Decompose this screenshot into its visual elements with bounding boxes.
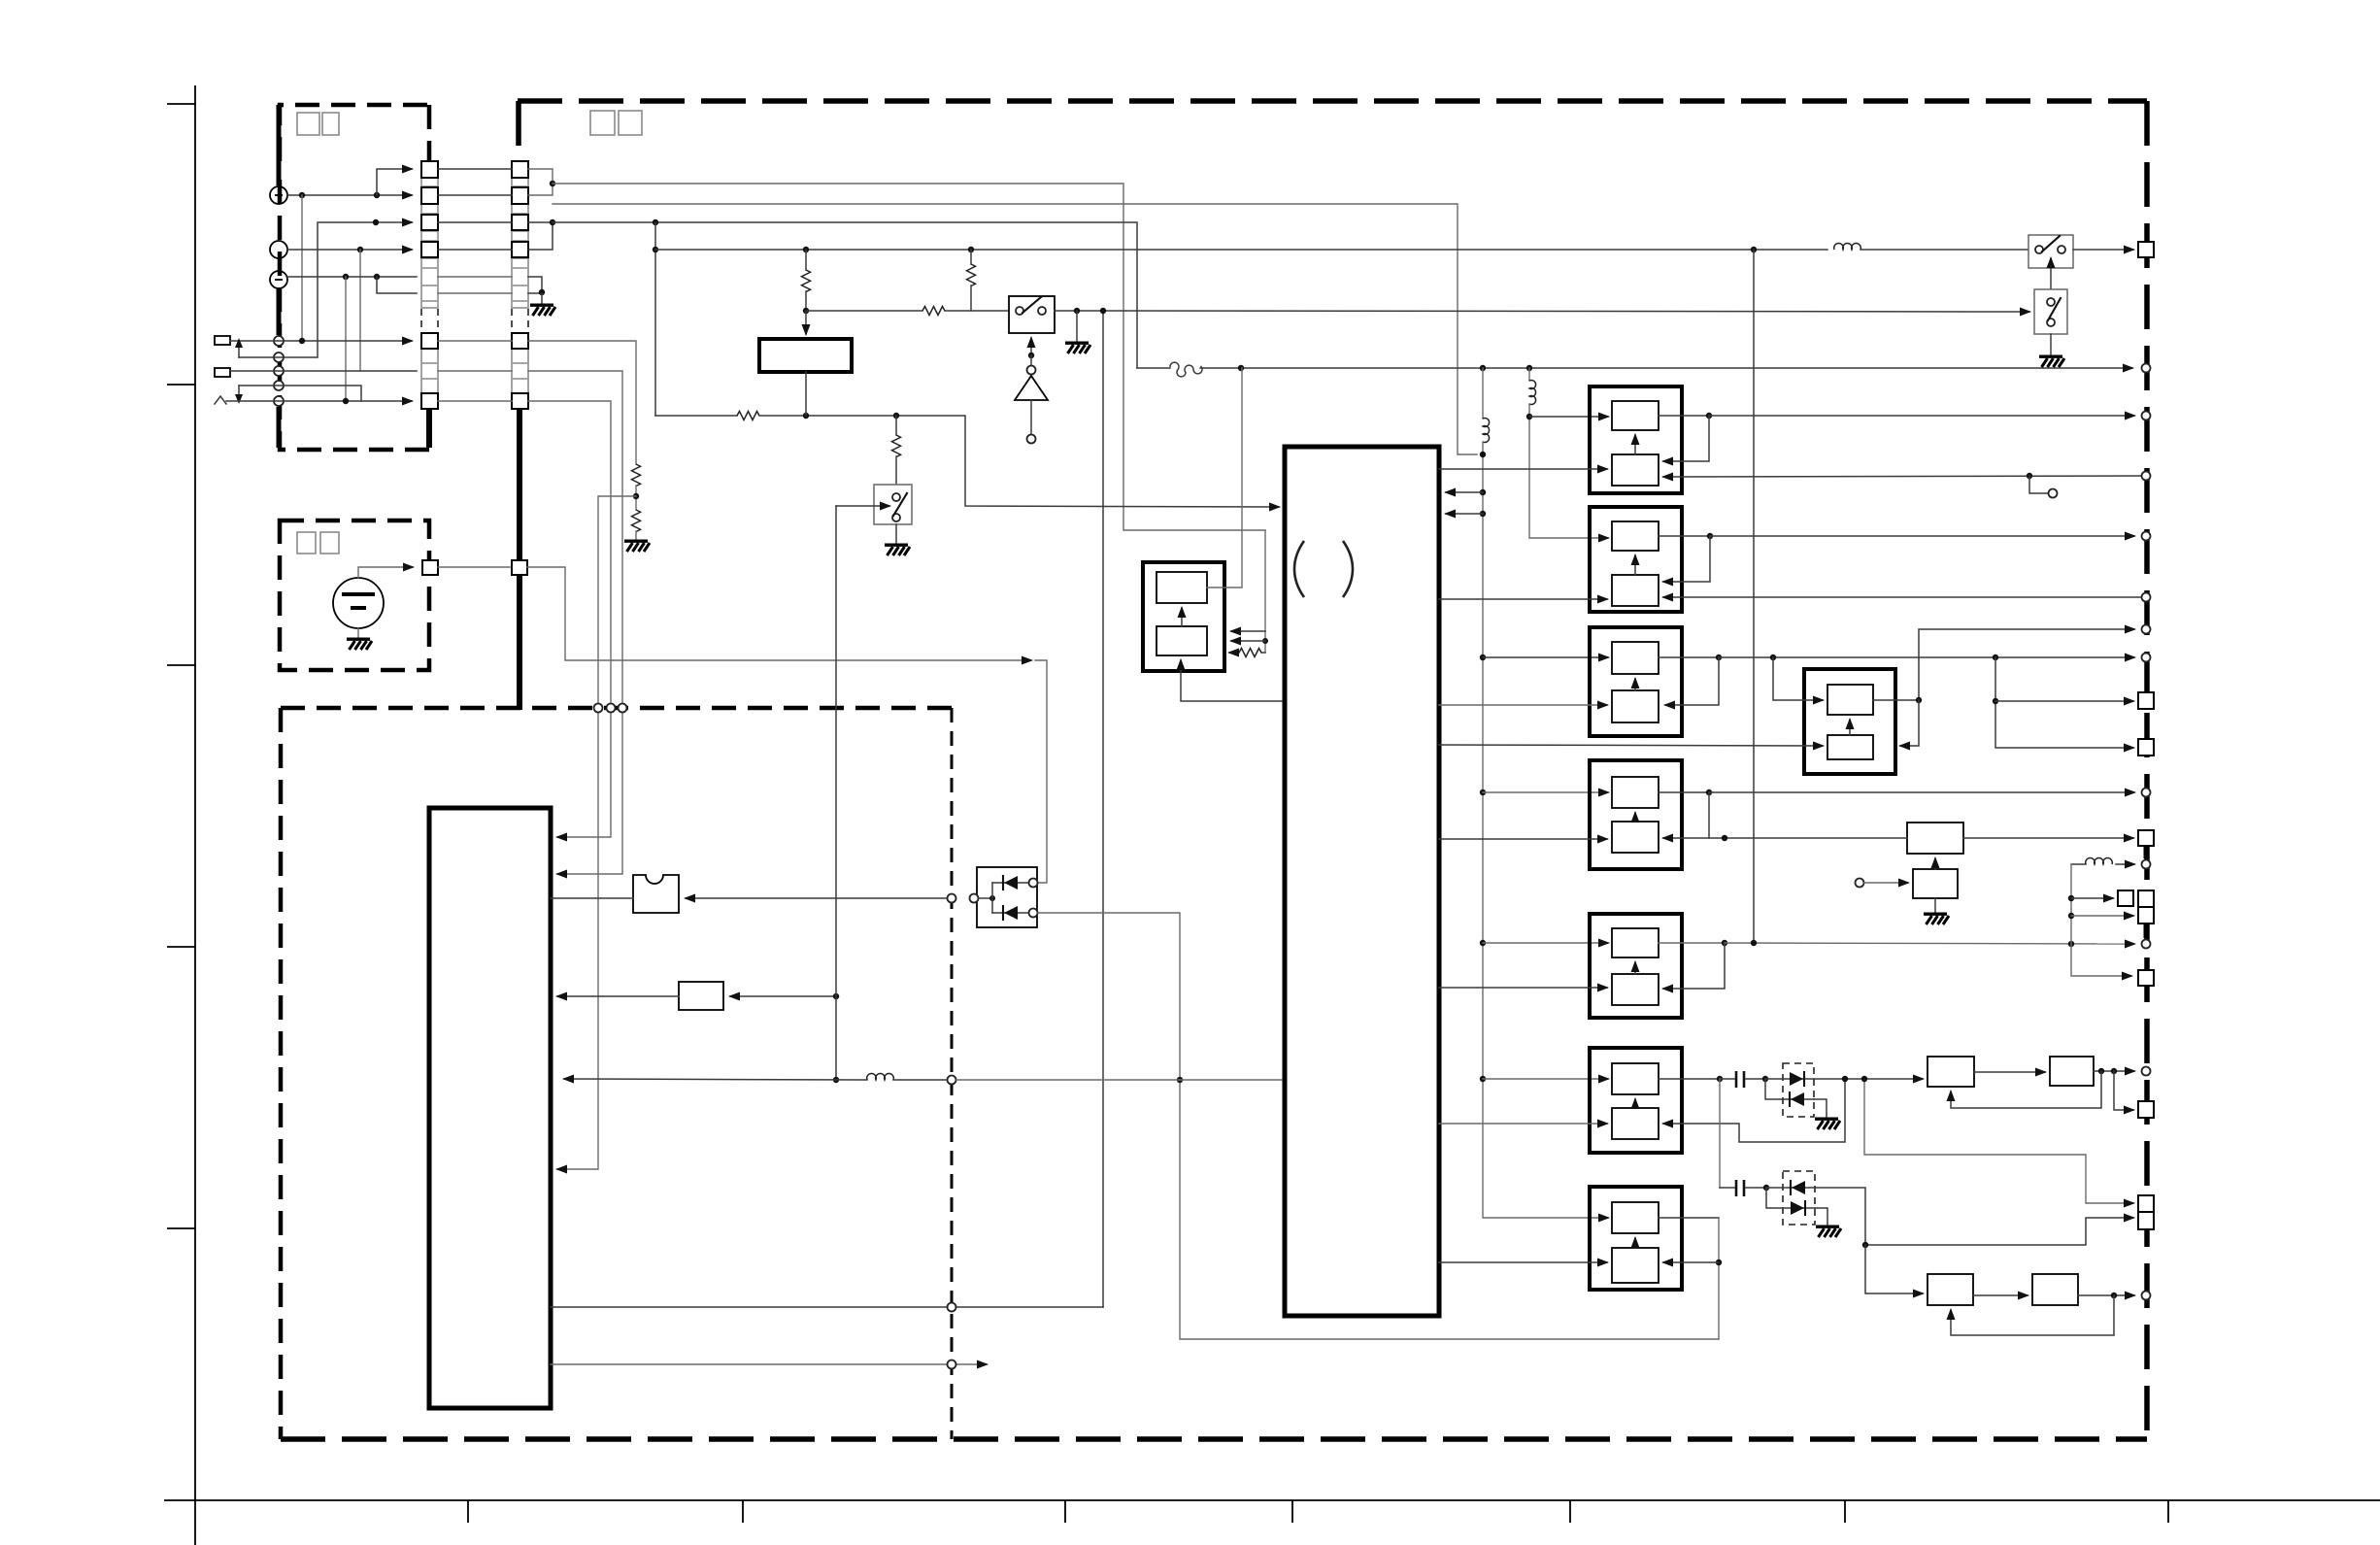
wire IC1 y1283 line (1865, 1218, 2133, 1245)
border circle y972 (2142, 940, 2151, 949)
wire R9 to tap (635, 486, 637, 510)
ground CN2 (530, 305, 555, 316)
wire R4 to bus320 (805, 291, 807, 311)
junction y1111 x1900 (1842, 1076, 1848, 1082)
A6 top rect (1612, 1063, 1659, 1094)
wire x1527 to box4 top (1483, 791, 1608, 793)
battery pack box P1 dashed border (280, 105, 429, 450)
lower-left block dashed right edge (951, 708, 954, 1439)
border circle y674 (2142, 654, 2151, 662)
border circle y615 (2142, 593, 2151, 602)
wire BT+ drop to row1 (301, 195, 303, 341)
junction x2133 y943 (2068, 913, 2074, 919)
driver box A1 (1590, 386, 1682, 493)
DB1 ground (1814, 1099, 1840, 1129)
fuse bus corner lead (1137, 367, 1170, 369)
lower-left block dashed top edge (281, 706, 952, 711)
CN1 column body lower (421, 333, 438, 409)
A5 bottom rect (1612, 974, 1659, 1005)
boundary circle x616 (594, 704, 603, 713)
resistor R osc feed (1239, 649, 1261, 657)
A6 bottom right input Z-path (1663, 1079, 1845, 1142)
cable wire pinA row (438, 340, 512, 342)
inductor L1 on bus257 (1834, 244, 1861, 250)
C1 branch to border square (2114, 1071, 2133, 1110)
junction D1 common (989, 895, 995, 901)
thick lead BT- to contact row1 (277, 288, 282, 335)
trunk x2133 (2071, 864, 2131, 976)
tick bottom 3 (1064, 1500, 1066, 1523)
junction y1111 x1920 (1861, 1076, 1867, 1082)
microcontroller IC2 (lower-left) (429, 808, 551, 1408)
A1 second input from border (1663, 476, 2146, 477)
border circle y490 (2142, 472, 2151, 481)
M1 bottom inner rect (1156, 626, 1207, 655)
arrowhead row4 link (235, 394, 243, 404)
junction x1527 y1111 (1480, 1076, 1486, 1082)
border circle y1103 (2142, 1067, 2151, 1076)
amp block C1b (2050, 1057, 2094, 1086)
tick bottom 6 (1844, 1500, 1846, 1523)
inductor L3 line (2071, 858, 2134, 864)
tick bottom 1 (467, 1500, 469, 1523)
chevron on row5 (215, 396, 226, 404)
cable wire pinC row (438, 400, 512, 402)
board outline main dashed top edge (518, 98, 2147, 104)
wire S2 bottom to ground (895, 524, 897, 544)
B2 input circle (1856, 879, 1864, 888)
C1 feedback path (1951, 1071, 2101, 1108)
servo box A8 (1804, 669, 1895, 774)
boundary circle x641 (619, 704, 627, 713)
cable wire pin1 row (438, 168, 512, 170)
A7 top rect (1612, 1202, 1659, 1233)
small square y925 (2118, 890, 2133, 906)
main board label squares (590, 111, 642, 135)
A4 feedback junction (1706, 789, 1712, 795)
switch S3 contact right (2058, 246, 2065, 253)
wire R10 to ground (635, 531, 637, 540)
wire bus y321 to S4 (1103, 311, 2029, 312)
A1 out to border circle (1709, 415, 2134, 417)
A4 top through wires (1659, 791, 1709, 793)
junction S3 trunk (1751, 247, 1757, 252)
wire IC2 to crystal (551, 897, 633, 899)
amp block C2b (2032, 1274, 2078, 1305)
A1 bottom input from IC1 (1439, 468, 1607, 470)
A2 top rect (1612, 521, 1659, 551)
wire to border square y943 (2071, 915, 2133, 917)
ground BT2 (347, 639, 372, 650)
A7 bottom input from IC1 (1439, 1261, 1607, 1263)
junction on BT+ line (299, 192, 305, 198)
C2 feedback path (1951, 1295, 2114, 1335)
wire A4 fb line through to B1 (1709, 837, 1907, 839)
CN2 pin2 (512, 187, 528, 204)
A3 feedback path (1665, 657, 1719, 705)
A5 feedback path (1663, 943, 1725, 989)
junction x1527 y816 (1480, 789, 1486, 795)
wire M2 output to IC2 (557, 995, 679, 997)
wire bus y210 (553, 204, 1477, 454)
wire L2 to boundary (893, 1079, 947, 1081)
CN2 dashed continuation (512, 309, 528, 332)
DB1 top diode (right pointing) (1765, 1072, 1814, 1086)
DB2 ground (1815, 1208, 1841, 1237)
D1a right terminal circle (1029, 879, 1038, 888)
trunk x1078 down to diode (1035, 660, 1047, 883)
arrow link row2 to row1 (238, 347, 240, 357)
junction fuse bus x1278 (1238, 365, 1244, 371)
CN1 pin3 (421, 215, 438, 230)
page frame left border (194, 85, 196, 1545)
wire y428 line 2 (759, 416, 1279, 507)
connector CN2 column body upper (512, 161, 528, 308)
DB1 bottom diode (left pointing) (1765, 1079, 1814, 1106)
border square y722 (2138, 692, 2154, 709)
CN2 column body lower (512, 333, 528, 409)
thick lead below contact row5 (277, 407, 282, 448)
A3 out to border circle (1719, 656, 2134, 658)
wire D1b to trunk x1215 (1038, 913, 1719, 1339)
battery negative terminal BT- (270, 271, 287, 288)
A3 bottom rect (1612, 690, 1659, 722)
junction R5 tap (968, 247, 974, 252)
wire BT2 top to pin (358, 567, 413, 578)
wire CN2 pinC to trunk x629 (528, 401, 611, 837)
junction x1527 y529 (1480, 511, 1486, 517)
wire tap to trunk x616 (557, 496, 636, 1169)
border circle y379 (2142, 364, 2151, 373)
driver box A7 (1590, 1187, 1682, 1290)
switch S4 contact bottom (2047, 319, 2055, 326)
bias block B2 (1913, 869, 1958, 898)
tick bottom 4 (1291, 1500, 1293, 1523)
switch S3 blade (2042, 236, 2060, 252)
D1b right terminal circle (1029, 909, 1038, 918)
junction M2 input (833, 993, 839, 999)
A7 top through wires (1659, 1217, 1719, 1219)
resistor R8 above S2 (892, 435, 901, 457)
junction A5 out x1805 (1751, 940, 1757, 946)
wire B1 out to border square (1963, 837, 2133, 839)
border circle y428 (2142, 412, 2151, 420)
junction C2 out (1763, 1185, 1769, 1191)
A2 feedback path (1663, 536, 1710, 582)
junction C1 out branch (2111, 1068, 2117, 1074)
junction y1283 (1862, 1242, 1868, 1248)
wire x1527 into IC1 y507 (1446, 491, 1483, 493)
amp block C1a (1927, 1057, 1974, 1087)
A3 bottom input from IC1 (1439, 704, 1607, 706)
wire R5 top lead (970, 250, 972, 264)
wire net1 trunk down to osc feeds (1264, 530, 1266, 653)
inductor L2 on y1112 (867, 1074, 894, 1080)
cable wire pin4 row (438, 249, 512, 251)
A5 feedback junction (1722, 940, 1727, 946)
border square y925 (2138, 890, 2154, 907)
wire IC2 out y1405 (551, 1363, 987, 1365)
A8 bottom input from IC1 y767 (1439, 745, 1823, 746)
P1 label squares (297, 113, 339, 135)
A2 out to border circle (1710, 535, 2134, 537)
border square y943 (2138, 907, 2154, 924)
contact circle row3 (274, 366, 284, 376)
CN2 pin1 (512, 161, 528, 178)
cable stub below CN1 (426, 409, 432, 448)
wire BT- drop to row5 (345, 277, 347, 401)
wire M2 input (730, 995, 836, 997)
ground B2 (1924, 914, 1949, 924)
driver box A3 (1590, 627, 1682, 736)
tick left 4 (167, 946, 195, 948)
wire S1 output (1055, 310, 1103, 312)
wire R5 bottom lead (970, 285, 972, 311)
vtr border square y863 (2138, 830, 2154, 846)
A8 top input from y674 (1770, 655, 1823, 700)
boundary circle y1405 (948, 1360, 956, 1369)
arrow link row4 to row5 (238, 386, 240, 395)
wire CN2 gnd drop (541, 293, 543, 304)
battery middle terminal BT-M (270, 241, 287, 258)
junction C2 out (2111, 1293, 2117, 1298)
y674 branch to border squares (1993, 655, 2133, 748)
A1 arrow up (1634, 435, 1636, 454)
boundary circle y925 (948, 894, 956, 903)
M1 arrow bottom to top (1181, 608, 1183, 626)
diode D1a (992, 876, 1029, 890)
wire IC2 out y1346 (551, 1306, 1103, 1308)
A1 top through wires (1659, 415, 1709, 417)
head amp block B1 (1907, 823, 1963, 854)
junction fuse bus x1575 (1526, 365, 1532, 371)
A1 top rect (1612, 401, 1659, 430)
switch S3 box (2028, 235, 2073, 268)
A7 feedback arrow (1663, 1261, 1719, 1263)
border square y1143 (2138, 1101, 2154, 1118)
switch S2 blade (893, 493, 907, 516)
test stub on y490 (2027, 473, 2058, 498)
trunk x1807 down (1753, 250, 1755, 943)
CN1 pin4 (421, 242, 438, 257)
wire x1527 into IC1 y529 (1446, 513, 1483, 515)
switch S3 contact left (2035, 246, 2043, 253)
driver box A2 (1590, 507, 1682, 612)
wire net2 drop x675 (654, 222, 656, 416)
junction fuse bus x1527 (1480, 365, 1486, 371)
cluster1 junction cap trunk (1717, 1076, 1723, 1082)
trunk x1575 (1529, 368, 1608, 538)
wire to small square y925 (2071, 897, 2113, 899)
border circle y552 (2142, 532, 2151, 541)
delay block M2 (679, 982, 723, 1010)
cable wire pin3 row (438, 221, 512, 223)
A2 bottom rect (1612, 575, 1659, 606)
A8 feedback path (1900, 700, 1919, 746)
board edge pin square P2 net (512, 560, 527, 575)
wire row1 tab to CN1 pinA (230, 340, 412, 342)
backup battery BT2 (333, 578, 384, 628)
junction bus257 tap (653, 247, 658, 252)
wire BT-M drop to row3 (359, 250, 361, 371)
A7 arrow up (1634, 1238, 1636, 1248)
junction osc feed 2 (1262, 638, 1268, 644)
resistor R5 (967, 264, 976, 286)
wire S1 ground drop (1076, 311, 1078, 342)
CN2 pin3 (512, 215, 528, 230)
switch S2 contact top (892, 493, 900, 501)
A3 arrow up (1634, 679, 1636, 690)
diode block D1 box (977, 867, 1037, 927)
A3 top rect (1612, 642, 1659, 674)
A4 out to border circle (1709, 791, 2134, 793)
battery positive terminal BT+ (270, 186, 287, 204)
wire osc feed 1 (1231, 630, 1265, 632)
capacitor C1 (1720, 1071, 1765, 1088)
board outline main dashed right edge (2144, 101, 2150, 1439)
A5 out line (1725, 943, 2134, 944)
border circle y1334 (2142, 1292, 2151, 1300)
ground divider (624, 541, 650, 552)
A8 top output trunk (1873, 629, 2134, 700)
trunk x1770 cap2 feed (1719, 1079, 1721, 1188)
wire bus y320 segment 1 (806, 310, 922, 312)
ground S1 (1065, 343, 1090, 353)
trunk x1527 (1483, 368, 1608, 1218)
A3 top through wires (1659, 656, 1719, 658)
P2 label squares (297, 532, 339, 554)
boundary circle y1346 (948, 1303, 956, 1312)
switch S4 contact top (2047, 298, 2055, 306)
wire x1527 to box5 top (1483, 942, 1608, 944)
tick left 1 (167, 103, 195, 105)
divider feed from CN2 pinA (528, 341, 636, 464)
wire fuse bus y380 (1200, 367, 2132, 369)
wire D1 common (979, 897, 992, 899)
A1 feedback junction (1706, 413, 1712, 419)
CN2 pinA (512, 333, 528, 349)
junction net2 x675 (653, 219, 658, 225)
resistor R4 above regulator (802, 270, 811, 292)
switch S4 box (2034, 289, 2067, 334)
junction regulator output (803, 413, 809, 419)
IC1 parentheses label (1294, 541, 1353, 597)
DB2 bottom diode (right pointing) (1766, 1188, 1815, 1215)
wire bracket BT- to CN1 pin6 (377, 277, 417, 293)
wire rect feed upper lead (805, 250, 807, 270)
A6 arrow up (1634, 1099, 1636, 1108)
stacked border squares y1231-1266 (2138, 1195, 2154, 1229)
switch S1 blade (1022, 297, 1041, 313)
junction A5 out x2133 (2068, 941, 2074, 947)
A6 bottom rect (1612, 1108, 1659, 1139)
junction x1776 on y863 (1722, 835, 1727, 841)
tick bottom 7 (2167, 1500, 2169, 1523)
A2 second input from border (1663, 596, 2146, 598)
border circle y648 (2142, 625, 2151, 634)
A2 arrow up (1634, 555, 1636, 575)
junction x1575 y429 (1526, 414, 1532, 420)
board edge cable stub below CN col2 (517, 409, 522, 710)
CN1 dashed continuation (421, 309, 438, 332)
junction x1527 y971 (1480, 940, 1486, 946)
wire BT2 to ground (357, 628, 359, 638)
wire B2 input (1864, 882, 1908, 884)
battery box P2 dashed border (280, 521, 429, 670)
junction x1527 y468 (1480, 452, 1486, 457)
wire bus y320 segment 2 (945, 310, 1009, 312)
junction A8 out (1916, 697, 1922, 703)
regulator block (bold rectangle) (759, 339, 852, 372)
wire S1out junction to inverter: none (crossing) (0, 0, 1, 1)
A8 top rect (1827, 685, 1873, 715)
boundary circle x629 (607, 704, 616, 713)
border circle y890 (2142, 860, 2151, 869)
junction S2 pullup tap (893, 413, 899, 419)
tick bottom 5 (1569, 1500, 1571, 1523)
tick bottom 2 (742, 1500, 744, 1523)
wire drop to amp C2a (1865, 1245, 1923, 1293)
wire DB2 out (1815, 1188, 1865, 1245)
wire y1112 into IC2 (564, 1079, 867, 1080)
resistor R9 divider top (632, 464, 641, 487)
wire D1 common split (991, 883, 993, 913)
junction BT- drop (343, 274, 349, 280)
arrowhead row2 link (235, 338, 243, 348)
A2 feedback junction (1707, 533, 1713, 539)
junction CN2 net2 (550, 219, 555, 225)
A4 top rect (1612, 777, 1659, 808)
wire arrow into regulator top (805, 311, 807, 334)
driver box A5 (1590, 914, 1682, 1018)
cable wire pin6 row (438, 292, 512, 294)
trunk x861 (835, 506, 837, 1080)
wire x1575 to box1 top (1529, 416, 1608, 418)
junction divider tap (633, 493, 639, 499)
wire P2 pin to board pin (438, 566, 512, 568)
DB2 top diode (left pointing) (1766, 1181, 1815, 1194)
junction x2133 y925 (2068, 895, 2074, 901)
switch S1 contact left (1016, 307, 1023, 315)
wire row4 (239, 386, 361, 401)
junction x1527 y507 (1480, 489, 1486, 495)
CN1 pinC (421, 393, 438, 409)
wire inverter bottom lead (1030, 400, 1032, 434)
tab terminal T1 (215, 336, 230, 345)
junction row1 (299, 338, 305, 344)
junction bus320 x1136 (1100, 308, 1106, 314)
CN2 pin4 (512, 242, 528, 257)
wire S2 input arrow (836, 505, 889, 507)
border circle y816 (2142, 789, 2151, 797)
cable wire pin2 row (438, 194, 512, 196)
wire x1527 to box6 top (1483, 1078, 1608, 1080)
wire bracket to CN1 pin1 (377, 169, 412, 195)
ground S2 (885, 545, 910, 555)
junction inverter node (1028, 353, 1034, 358)
switch S2 box (874, 485, 912, 524)
trunk x1777 from A5 net down (1864, 1079, 2133, 1203)
B2 arrow up into B1 (1934, 858, 1936, 869)
A5 top through wires (1659, 942, 1725, 944)
inverter Q1 triangle (1015, 376, 1048, 400)
board outline main dashed left edge upper (516, 101, 521, 161)
switch S4 blade (2048, 298, 2061, 320)
fuse F1 symbol (1170, 362, 1202, 377)
wire S2 pullup lead (895, 416, 897, 435)
A2 bottom input from IC1 (1439, 598, 1607, 600)
wire into crystal arrow (686, 897, 950, 899)
